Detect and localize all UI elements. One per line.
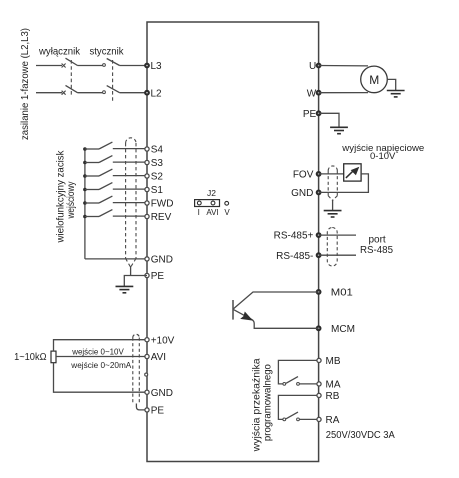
wire RS-485+ <box>319 234 356 236</box>
wire FOV to meter <box>319 173 344 175</box>
terminal RA <box>317 417 321 421</box>
svg-text:S1: S1 <box>151 185 164 196</box>
switch S2 <box>83 169 147 178</box>
svg-text:REV: REV <box>151 212 172 223</box>
shield of FOV cable (dashed) <box>328 166 337 200</box>
terminal L2 <box>145 90 150 95</box>
wire meter to GND <box>319 174 369 193</box>
wire PE to ground <box>124 276 147 287</box>
switch REV <box>83 210 147 219</box>
transistor emitter arrow <box>240 312 253 321</box>
terminal RS-485- <box>316 253 321 258</box>
terminal W <box>316 90 321 95</box>
wire breaker to contactor (L3) <box>78 65 103 67</box>
wire W to motor <box>319 92 368 94</box>
ground symbol (FOV shield) <box>324 211 342 217</box>
svg-text:wielofunkcyjny zacisk: wielofunkcyjny zacisk <box>56 150 67 244</box>
wire pot bottom to GND <box>54 363 148 393</box>
svg-text:V: V <box>224 208 230 217</box>
svg-text:MB: MB <box>326 356 341 367</box>
shield of analog cable (dashed) <box>133 334 140 404</box>
wire +10V to pot top <box>54 340 148 351</box>
terminal MCM <box>316 326 321 331</box>
svg-text:FOV: FOV <box>293 170 314 181</box>
svg-text:S4: S4 <box>151 145 164 156</box>
terminal S4 <box>145 147 149 151</box>
terminal PE (left) <box>145 273 149 277</box>
svg-text:stycznik: stycznik <box>90 46 125 57</box>
ground symbol (PE right) <box>330 127 348 133</box>
wire pot wiper to AVI <box>56 356 147 358</box>
terminal S3 <box>145 160 149 164</box>
relay 1 contact b <box>297 383 300 386</box>
breaker blade (L3) <box>66 58 78 65</box>
wire L3 input <box>36 65 62 67</box>
svg-text:AVI: AVI <box>206 208 218 217</box>
svg-text:L3: L3 <box>151 61 163 72</box>
wire RS-485- <box>319 254 356 256</box>
wire contactor to L2 terminal <box>120 92 147 94</box>
breaker blade (L2) <box>66 85 78 92</box>
svg-text:MA: MA <box>326 380 341 391</box>
svg-text:wyjścia przekaźnika: wyjścia przekaźnika <box>252 358 263 453</box>
relay 2 contact b <box>297 418 300 421</box>
ground symbol (motor) <box>387 91 405 97</box>
terminal S1 <box>145 187 149 191</box>
shield drain to ground <box>332 200 334 211</box>
breaker contact X (L2) <box>62 91 66 95</box>
wire bus to GND terminal <box>85 258 147 260</box>
terminal U <box>316 63 321 68</box>
relay 2 wire to RA <box>299 418 317 420</box>
transistor emitter wire to MCM <box>234 310 319 329</box>
svg-text:M01: M01 <box>331 288 353 299</box>
contactor blade (L2) <box>107 86 120 93</box>
terminal RB <box>317 393 321 397</box>
wire contactor to L3 terminal <box>120 65 147 67</box>
relay 2 wire RB loop <box>278 395 317 419</box>
terminal MA <box>317 382 321 386</box>
switch S1 <box>83 183 147 192</box>
terminal PE (bottom left) <box>145 408 149 412</box>
transistor Q1 (open collector output) <box>232 300 234 320</box>
terminal S2 <box>145 174 149 178</box>
shield drain wire to PE <box>130 266 132 276</box>
breaker mechanical link (dashed) <box>70 60 72 97</box>
svg-text:U: U <box>309 61 316 72</box>
svg-text:GND: GND <box>151 255 173 266</box>
svg-text:PE: PE <box>303 109 317 120</box>
motor M <box>361 66 388 93</box>
J2 pin I <box>197 201 201 205</box>
terminal REV <box>145 214 149 218</box>
terminal FWD <box>145 201 149 205</box>
relay 2 blade <box>286 412 298 419</box>
svg-text:zasilanie 1-fazowe (L2,L3): zasilanie 1-fazowe (L2,L3) <box>20 28 31 140</box>
svg-text:L2: L2 <box>151 88 163 99</box>
switch FWD <box>83 196 147 205</box>
switch S3 <box>83 156 147 165</box>
svg-text:0-10V: 0-10V <box>370 151 396 162</box>
svg-text:250V/30VDC 3A: 250V/30VDC 3A <box>326 430 395 441</box>
contactor contact circle (L3) <box>103 64 106 67</box>
svg-text:RA: RA <box>326 415 340 426</box>
svg-text:RS-485-: RS-485- <box>276 251 313 262</box>
input bus wire <box>84 149 86 259</box>
svg-text:FWD: FWD <box>151 199 174 210</box>
svg-text:GND: GND <box>291 188 313 199</box>
switch S4 <box>83 142 147 151</box>
relay 1 contact a <box>283 383 286 386</box>
terminal unlabeled (ACM) <box>145 373 148 376</box>
relay 1 wire to MA <box>299 383 317 385</box>
relay 2 contact a <box>283 418 286 421</box>
wire L2 input <box>36 92 62 94</box>
svg-text:RS-485: RS-485 <box>360 245 393 256</box>
terminal MB <box>317 358 321 362</box>
inverter block outline <box>147 22 319 462</box>
transistor collector wire to M01 <box>234 292 319 309</box>
wire breaker to contactor (L2) <box>78 92 103 94</box>
svg-text:programowalnego: programowalnego <box>263 364 274 441</box>
terminal GND (bottom left) <box>145 390 149 394</box>
svg-text:J2: J2 <box>207 188 216 198</box>
J2 pin V <box>225 201 229 205</box>
svg-text:W: W <box>307 88 317 99</box>
shield drain to PE <box>136 404 145 410</box>
svg-text:MCM: MCM <box>331 324 355 335</box>
svg-text:1~10kΩ: 1~10kΩ <box>14 352 47 363</box>
terminal AVI <box>145 354 149 358</box>
svg-text:AVI: AVI <box>151 352 166 363</box>
terminal +10V <box>145 338 149 342</box>
J2 pin AVI <box>211 201 215 205</box>
terminal PE (right) <box>316 111 321 116</box>
svg-text:wyłącznik: wyłącznik <box>38 46 81 57</box>
svg-text:RB: RB <box>326 391 340 402</box>
svg-text:S2: S2 <box>151 172 164 183</box>
svg-text:PE: PE <box>151 406 165 417</box>
terminal M01 <box>316 290 321 295</box>
wire PE right to ground <box>319 113 339 127</box>
voltmeter box <box>344 164 361 181</box>
contactor contact circle (L2) <box>103 91 106 94</box>
contactor blade (L3) <box>107 59 120 66</box>
svg-text:port: port <box>368 234 385 245</box>
terminal GND (right) <box>316 190 321 195</box>
wire motor to ground <box>387 79 395 90</box>
relay 1 wire MB loop <box>278 360 317 384</box>
svg-text:I: I <box>198 208 200 217</box>
terminal GND (left) <box>145 257 149 261</box>
svg-text:wejściowy: wejściowy <box>66 182 77 220</box>
terminal L3 <box>145 63 150 68</box>
svg-text:GND: GND <box>151 388 173 399</box>
svg-text:RS-485+: RS-485+ <box>274 231 314 242</box>
svg-text:wejście 0~20mA: wejście 0~20mA <box>70 360 131 370</box>
svg-text:wejście 0~10V: wejście 0~10V <box>71 346 124 356</box>
svg-text:PE: PE <box>151 271 165 282</box>
J2 jumper block <box>195 200 220 207</box>
terminal FOV <box>316 172 321 177</box>
shield of RS-485 cable (dashed) <box>327 228 337 267</box>
ground symbol (left PE) <box>116 286 134 292</box>
breaker contact X (L3) <box>62 64 66 68</box>
relay 1 blade <box>286 377 298 384</box>
contactor mechanical link (dashed) <box>112 60 114 102</box>
svg-text:M: M <box>369 73 379 87</box>
shield of input cable (dashed) <box>126 138 136 267</box>
svg-text:+10V: +10V <box>151 335 175 346</box>
svg-text:S3: S3 <box>151 158 164 169</box>
terminal RS-485+ <box>316 233 321 238</box>
wire U to motor <box>319 65 368 67</box>
voltmeter needle arrow <box>346 171 354 178</box>
